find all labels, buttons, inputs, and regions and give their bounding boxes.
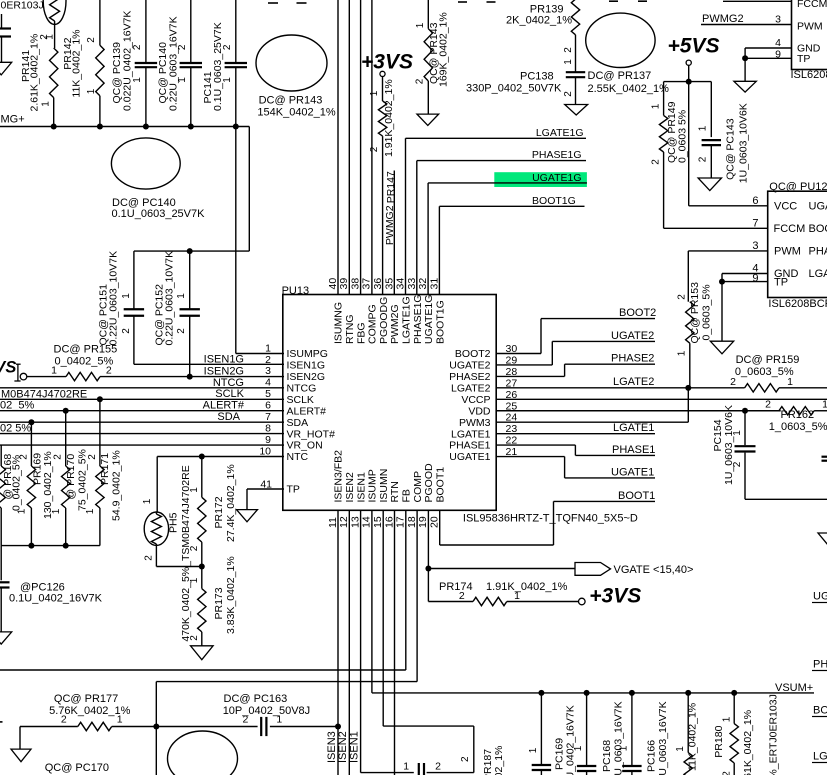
svg-text:0_0603_5%: 0_0603_5% xyxy=(735,366,794,378)
label ISL6208BCR xyxy=(768,298,827,310)
label PC151 xyxy=(98,251,120,346)
wire SCLK xyxy=(0,398,284,400)
ground PC126 xyxy=(0,632,12,644)
wire GND pin4 PU12 xyxy=(722,274,768,282)
wire PGOOD pin19 xyxy=(427,510,429,568)
svg-text:0402_1%: 0402_1% xyxy=(493,746,505,775)
capacitor PC141 xyxy=(225,0,247,127)
svg-text:LGATE: LGATE xyxy=(809,268,827,280)
svg-text:37: 37 xyxy=(361,278,373,290)
wire +5VS down xyxy=(688,65,690,81)
wire PGOOD to PR174 xyxy=(428,569,473,602)
svg-text:TP: TP xyxy=(797,53,810,65)
junction VSUM res1 xyxy=(685,690,691,696)
pin 1 label PR174 xyxy=(514,590,520,602)
svg-text:0.22U_0603_16V7K: 0.22U_0603_16V7K xyxy=(657,701,669,775)
pin 2 label vert xyxy=(460,756,471,762)
wire BOOT2 xyxy=(496,319,655,354)
svg-text:PR172: PR172 xyxy=(213,496,225,528)
wire LGATE2 xyxy=(496,387,688,389)
svg-text:2.61K_0402_1%: 2.61K_0402_1% xyxy=(742,710,754,775)
svg-text:COMP: COMP xyxy=(412,471,424,503)
svg-text:ISEN1: ISEN1 xyxy=(349,731,361,763)
svg-text:PWMG2: PWMG2 xyxy=(384,205,396,245)
svg-text:1: 1 xyxy=(528,747,539,753)
svg-text:UGATE2: UGATE2 xyxy=(611,330,654,342)
wire PR177 to PC163 xyxy=(112,726,258,728)
label QC@ PC143 xyxy=(725,103,750,183)
pin labels PC139 xyxy=(132,44,143,83)
svg-text:2: 2 xyxy=(721,771,732,775)
pin 2 label PC163 xyxy=(242,714,248,726)
svg-text:9: 9 xyxy=(265,434,271,446)
svg-text:BOOT1: BOOT1 xyxy=(618,490,655,502)
label DC@ PR155 xyxy=(54,344,118,368)
label 11K_0402_1% xyxy=(687,703,699,771)
wire PWM3 up to LGATE2 xyxy=(496,388,688,422)
svg-text:3: 3 xyxy=(265,365,271,377)
pin labels PR170 xyxy=(51,454,64,515)
net label BOOT2 xyxy=(619,307,656,319)
svg-text:BOOT2: BOOT2 xyxy=(619,307,656,319)
net label ISEN3 xyxy=(326,731,338,763)
pin labels PC141 xyxy=(222,44,233,83)
wire VR_ON xyxy=(0,444,284,446)
wire ISEN3 pin11 xyxy=(337,510,339,775)
svg-text:PR174: PR174 xyxy=(439,581,473,593)
pin VCC xyxy=(774,201,827,213)
svg-text:ISEN1G: ISEN1G xyxy=(287,360,326,372)
pin labels PC151 xyxy=(121,293,132,334)
svg-text:PWM2G: PWM2G xyxy=(389,304,401,344)
pin 1 label PR142 xyxy=(86,88,97,94)
svg-text:0.22U_0603_10V7K: 0.22U_0603_10V7K xyxy=(108,251,120,346)
label M0B474J4702RE xyxy=(1,389,87,401)
pin names top PU13 xyxy=(333,294,447,344)
resistor PR162 xyxy=(779,407,827,415)
svg-text:2: 2 xyxy=(698,156,709,162)
power +5VS xyxy=(668,35,720,58)
svg-text:PGOOD: PGOOD xyxy=(423,463,435,503)
balloon DC@ PR143 xyxy=(256,35,327,91)
pin labels PR159 xyxy=(730,376,793,388)
resistor PR174 xyxy=(473,597,507,605)
pin 2 label PR142 xyxy=(86,37,97,43)
capacitor PC169 xyxy=(532,693,551,775)
wire resistor-bank rail xyxy=(1,545,100,547)
wire COMP col down xyxy=(155,682,157,775)
wire PR174 to +3VS xyxy=(507,601,579,603)
resistor PR141 xyxy=(50,48,58,127)
svg-text:+3VS: +3VS xyxy=(589,585,641,608)
wire PHASE1 xyxy=(496,445,655,455)
label PC152 xyxy=(153,251,175,346)
label PR169 xyxy=(31,451,54,519)
svg-text:4: 4 xyxy=(775,37,781,49)
resistor QC@ PR143 xyxy=(424,0,432,114)
label DC@ PC140 xyxy=(112,197,206,220)
terminal +3VS xyxy=(380,71,385,76)
svg-text:32: 32 xyxy=(417,278,429,290)
label PR173 xyxy=(213,556,237,634)
svg-text:2: 2 xyxy=(53,454,64,460)
junction GND/TP PU12 xyxy=(719,279,725,285)
net label LGATE2 xyxy=(613,376,654,388)
pin labels PR162 xyxy=(765,399,827,411)
pin labels PR153 xyxy=(677,294,688,357)
wire +3VS to PR147 xyxy=(382,77,384,102)
resistor PR147 xyxy=(378,101,386,295)
svg-text:ISUMNG: ISUMNG xyxy=(333,302,345,344)
svg-text:1: 1 xyxy=(787,376,793,388)
pin 1 PC168 xyxy=(573,745,584,751)
net label LGATE right edge xyxy=(812,751,827,763)
capacitor PC166 xyxy=(622,693,641,775)
svg-text:MG+: MG+ xyxy=(1,114,25,126)
label PR141 xyxy=(20,34,41,112)
svg-text:PHASE1: PHASE1 xyxy=(449,440,491,452)
wire ISEN2G left xyxy=(27,376,66,378)
svg-text:1: 1 xyxy=(369,90,380,96)
pin labels PR173 xyxy=(189,577,200,641)
resistor 11K bottom xyxy=(684,693,692,775)
svg-text:14: 14 xyxy=(361,516,373,528)
pin number 9 PU12 xyxy=(752,272,758,284)
pin labels PR149 xyxy=(651,103,662,165)
svg-text:1: 1 xyxy=(189,577,200,583)
svg-text:FCCM: FCCM xyxy=(797,0,827,10)
pin TP label xyxy=(797,53,810,65)
pin labels PR139/PC138 xyxy=(563,47,574,65)
svg-text:0_0402_5%: 0_0402_5% xyxy=(55,355,114,367)
label PH5 xyxy=(168,465,193,641)
svg-text:35: 35 xyxy=(383,278,395,290)
svg-text:LGATE1G: LGATE1G xyxy=(536,127,584,139)
svg-text:ISUMN: ISUMN xyxy=(378,469,390,503)
pin 2 label PR155 xyxy=(106,365,112,377)
junction on rail at PR142 xyxy=(97,124,103,130)
wire VCCP xyxy=(496,398,827,400)
svg-text:ISEN2: ISEN2 xyxy=(337,731,349,763)
svg-text:ISEN3/FB2: ISEN3/FB2 xyxy=(333,450,345,503)
wire UGATE1G xyxy=(428,183,587,295)
svg-text:0.1U_0402_16V7K: 0.1U_0402_16V7K xyxy=(565,705,577,775)
capacitor PC126 (cut) xyxy=(0,582,10,632)
svg-text:ALERT#: ALERT# xyxy=(287,405,327,417)
svg-text:ISEN1G: ISEN1G xyxy=(204,353,244,365)
svg-text:1U_0603_10V6K: 1U_0603_10V6K xyxy=(738,103,750,183)
svg-text:54.9_0402_1%: 54.9_0402_1% xyxy=(111,450,123,521)
wire RTN pin16 xyxy=(394,510,396,775)
wire bottom cap right xyxy=(427,772,474,774)
resistor PR142 xyxy=(96,0,104,127)
label PR171 xyxy=(99,450,123,521)
svg-text:1.91K_0402_1%: 1.91K_0402_1% xyxy=(383,79,395,157)
junction SCLK/PR171 xyxy=(97,396,103,402)
wire TP pin41 xyxy=(247,489,284,510)
thermistor PH5 xyxy=(144,512,202,567)
pin 2 label PC138 xyxy=(563,91,574,97)
pin 2 label PR177 xyxy=(61,714,67,726)
svg-text:UGATE1G: UGATE1G xyxy=(532,172,581,184)
svg-text:VR_HOT#: VR_HOT# xyxy=(287,428,336,440)
label ISL6208 xyxy=(791,69,827,81)
svg-text:1: 1 xyxy=(563,59,574,65)
net label PHASE1G xyxy=(532,149,582,161)
svg-text:DC@ PC163: DC@ PC163 xyxy=(224,693,288,705)
svg-text:1: 1 xyxy=(677,350,688,356)
svg-text:PWM3: PWM3 xyxy=(459,417,491,429)
svg-text:11K_0402_1%: 11K_0402_1% xyxy=(687,703,699,771)
resistor PR173 xyxy=(198,567,206,646)
svg-text:12: 12 xyxy=(338,516,350,528)
resistor PR177 xyxy=(78,722,112,730)
svg-text:6: 6 xyxy=(265,400,271,412)
net label UGATE right edge xyxy=(812,591,827,603)
svg-text:NTC: NTC xyxy=(287,451,309,463)
wire ISEN2G to PU13 xyxy=(100,376,284,378)
svg-text:7: 7 xyxy=(265,411,271,423)
svg-text:2: 2 xyxy=(106,365,112,377)
label PR174 xyxy=(439,581,568,593)
label PC154 xyxy=(712,405,735,485)
junction NTC/PR172 xyxy=(199,454,205,460)
svg-text:1: 1 xyxy=(189,487,200,493)
svg-text:NTCG: NTCG xyxy=(287,382,317,394)
pin numbers bottom PU13 xyxy=(327,516,441,528)
svg-text:3.83K_0402_1%: 3.83K_0402_1% xyxy=(225,556,237,634)
svg-text:DC@ PR143: DC@ PR143 xyxy=(259,95,323,107)
svg-text:2: 2 xyxy=(677,294,688,300)
label PC166 xyxy=(646,701,670,775)
svg-text:02_5%: 02_5% xyxy=(0,399,34,411)
svg-text:1: 1 xyxy=(86,88,97,94)
capacitor right edge (cut) xyxy=(822,457,827,461)
svg-text:1: 1 xyxy=(415,22,426,28)
svg-text:LGATE2: LGATE2 xyxy=(451,382,491,394)
capacitor PC163 xyxy=(261,717,266,736)
label PC141 xyxy=(202,22,224,111)
ground below PC138 xyxy=(565,105,588,116)
svg-text:1: 1 xyxy=(176,293,187,299)
svg-text:VDD: VDD xyxy=(468,405,491,417)
junction LGATE2/PR153/PWM3 xyxy=(685,385,691,391)
svg-text:10: 10 xyxy=(259,445,271,457)
ground ISL6208 #2 xyxy=(710,341,733,354)
svg-text:PWMG2: PWMG2 xyxy=(702,13,744,25)
label PR168 xyxy=(2,454,23,511)
svg-text:3: 3 xyxy=(752,240,758,252)
svg-text:18: 18 xyxy=(406,516,418,528)
svg-text:2.61K_0402_1%: 2.61K_0402_1% xyxy=(28,34,40,112)
junction ISEN2G/PC152 xyxy=(187,374,193,380)
svg-text:PHASE2: PHASE2 xyxy=(449,371,491,383)
net label LGATE1G xyxy=(536,127,584,139)
svg-text:LGATE1G: LGATE1G xyxy=(401,296,413,344)
resistor PR159 xyxy=(688,384,827,392)
svg-text:7: 7 xyxy=(752,218,758,230)
pin names left PU13 xyxy=(287,348,336,463)
svg-text:36: 36 xyxy=(372,278,384,290)
wire TP pin9 xyxy=(745,58,791,81)
svg-text:LGATE1: LGATE1 xyxy=(613,422,654,434)
svg-text:DC@ PR155: DC@ PR155 xyxy=(54,344,118,356)
svg-text:FB: FB xyxy=(401,489,413,502)
wire ISEN1 pin13 xyxy=(361,510,414,772)
label QC@ PU12 xyxy=(769,181,827,193)
capacitor at left edge (cut) xyxy=(0,14,11,62)
svg-text:2: 2 xyxy=(189,635,200,641)
svg-text:NTCG: NTCG xyxy=(213,377,244,389)
ground below QC@PR143 xyxy=(417,114,439,125)
pin 2 label PR147 xyxy=(369,146,380,152)
svg-text:2: 2 xyxy=(61,714,67,726)
caret artifact xyxy=(14,364,20,381)
svg-text:ISL6208: ISL6208 xyxy=(791,69,827,81)
svg-text:13: 13 xyxy=(349,516,361,528)
svg-text:10P_0402_50V8J: 10P_0402_50V8J xyxy=(223,705,310,717)
label @PC126 xyxy=(9,581,103,604)
net label VSUM+ xyxy=(775,682,813,694)
svg-text:ALERT#: ALERT# xyxy=(203,400,245,412)
junction ALERT#/PR170 xyxy=(63,408,69,414)
svg-text:BOOT: BOOT xyxy=(813,705,827,717)
svg-text:FBG: FBG xyxy=(355,322,367,344)
thermistor circle (cut, 0ER103J) xyxy=(43,0,66,48)
svg-text:1: 1 xyxy=(265,342,271,354)
stub left edge xyxy=(0,721,3,723)
svg-text:PHASE2: PHASE2 xyxy=(611,353,654,365)
junction VDD/PC154 xyxy=(742,408,748,414)
pin number 9 xyxy=(775,49,781,61)
wire ISUMP pin14 xyxy=(372,510,814,693)
svg-text:1: 1 xyxy=(698,125,709,131)
svg-text:1: 1 xyxy=(573,745,584,751)
svg-text:27.4K_0402_1%: 27.4K_0402_1% xyxy=(225,464,237,542)
resistor PR155 xyxy=(66,372,100,380)
svg-text:PH5: PH5 xyxy=(168,512,180,533)
pin FCCM label xyxy=(797,0,827,10)
resistor PR171 xyxy=(96,399,104,545)
svg-text:+5VS: +5VS xyxy=(668,35,720,58)
pin labels PR171 xyxy=(85,454,98,515)
svg-text:1: 1 xyxy=(514,590,520,602)
wire VR_HOT# xyxy=(0,433,284,435)
junction GND/TP xyxy=(742,55,748,61)
pin names bottom PU13 xyxy=(333,450,447,503)
pin TP PU13 xyxy=(287,484,300,496)
pin GND label xyxy=(797,43,821,55)
wire +5VS to PC143 xyxy=(689,82,712,138)
svg-text:0ER103J: 0ER103J xyxy=(1,0,44,12)
svg-text:1: 1 xyxy=(651,103,662,109)
svg-text:BOOT1G: BOOT1G xyxy=(434,300,446,344)
wire LGATE1G xyxy=(406,138,587,294)
terminal PR155 xyxy=(20,373,27,380)
pin GND2 xyxy=(774,268,827,280)
label DC@ PR159 xyxy=(735,354,799,378)
capacitor PC151 xyxy=(124,251,144,364)
wire FCCM pin7 xyxy=(723,0,792,2)
svg-text:2: 2 xyxy=(563,47,574,53)
svg-text:VGATE <15,40>: VGATE <15,40> xyxy=(614,564,694,576)
svg-text:1: 1 xyxy=(117,714,123,726)
resistor PR170 xyxy=(62,411,70,546)
pin number 3 PU12 xyxy=(752,240,758,252)
svg-text:PHASE: PHASE xyxy=(813,659,827,671)
pin names right PU13 xyxy=(449,348,491,463)
svg-text:ISEN2G: ISEN2G xyxy=(204,365,244,377)
wire ISUMNG pin40 xyxy=(337,0,339,295)
svg-text:17: 17 xyxy=(395,516,407,528)
svg-text:0.022U_0402_16V7K: 0.022U_0402_16V7K xyxy=(121,11,133,111)
svg-text:QC@ PU12: QC@ PU12 xyxy=(769,181,827,193)
net label PWMG2 vertical xyxy=(384,205,396,245)
svg-text:8: 8 xyxy=(265,422,271,434)
label DC@ PR137 xyxy=(588,70,670,95)
svg-text:SDA: SDA xyxy=(217,411,240,423)
svg-text:470K_0402_5%_ERTJ0ER103J: 470K_0402_5%_ERTJ0ER103J xyxy=(768,694,780,775)
pin labels PR172 xyxy=(189,487,200,552)
wire ISEN2 pin12 xyxy=(348,510,350,775)
svg-text:LGATE: LGATE xyxy=(813,751,827,763)
pin labels PC140 xyxy=(177,44,188,83)
pin number 4 PU12 xyxy=(752,263,758,275)
svg-text:PR180: PR180 xyxy=(713,725,725,757)
wire BOOT1G xyxy=(439,206,584,294)
svg-text:PR173: PR173 xyxy=(213,587,225,619)
svg-text:2: 2 xyxy=(144,555,155,561)
svg-text:3: 3 xyxy=(775,14,781,26)
label QC@ PR149 xyxy=(666,101,688,163)
capacitor PC138 xyxy=(566,72,585,104)
svg-text:PC166: PC166 xyxy=(646,740,658,772)
svg-text:1: 1 xyxy=(822,399,827,411)
label 0ER103J xyxy=(1,0,44,12)
svg-text:11: 11 xyxy=(327,517,339,528)
wire PR177 left xyxy=(20,727,78,750)
wire LGATE1 xyxy=(496,433,655,435)
wire UGATE1 xyxy=(496,457,655,478)
svg-text:31: 31 xyxy=(429,278,441,290)
pin2 wire ISEN1G xyxy=(134,363,284,365)
label DC@ PC163 xyxy=(223,693,310,717)
wire +5VS to VCC xyxy=(689,82,768,206)
pin labels PC143 xyxy=(698,125,709,162)
junction VSUM PC168 xyxy=(584,690,590,696)
net label LGATE1 xyxy=(613,422,654,434)
svg-text:QC@ PC170: QC@ PC170 xyxy=(45,762,109,774)
svg-text:PHASE: PHASE xyxy=(809,246,827,258)
label PR180 xyxy=(713,710,754,775)
svg-text:QC@ PR177: QC@ PR177 xyxy=(54,693,118,705)
svg-text:BOOT2: BOOT2 xyxy=(455,348,491,360)
svg-text:UGATE2: UGATE2 xyxy=(449,360,490,372)
wire COMPG pin37 xyxy=(371,0,373,295)
label QC@ PC170 xyxy=(45,762,109,774)
net label VGATE <15,40> xyxy=(614,564,694,576)
net label ISEN1G xyxy=(204,353,244,365)
ground PR173 xyxy=(191,646,214,660)
svg-text:1: 1 xyxy=(619,745,630,751)
svg-text:330P_0402_50V7K: 330P_0402_50V7K xyxy=(466,82,562,94)
svg-text:1: 1 xyxy=(132,77,143,83)
svg-text:UGATE: UGATE xyxy=(809,201,827,213)
junction on rail at PR141 xyxy=(51,124,57,130)
resistor PR139 xyxy=(571,0,579,72)
label PR162 xyxy=(769,409,827,433)
svg-text:ISEN2: ISEN2 xyxy=(344,472,356,503)
